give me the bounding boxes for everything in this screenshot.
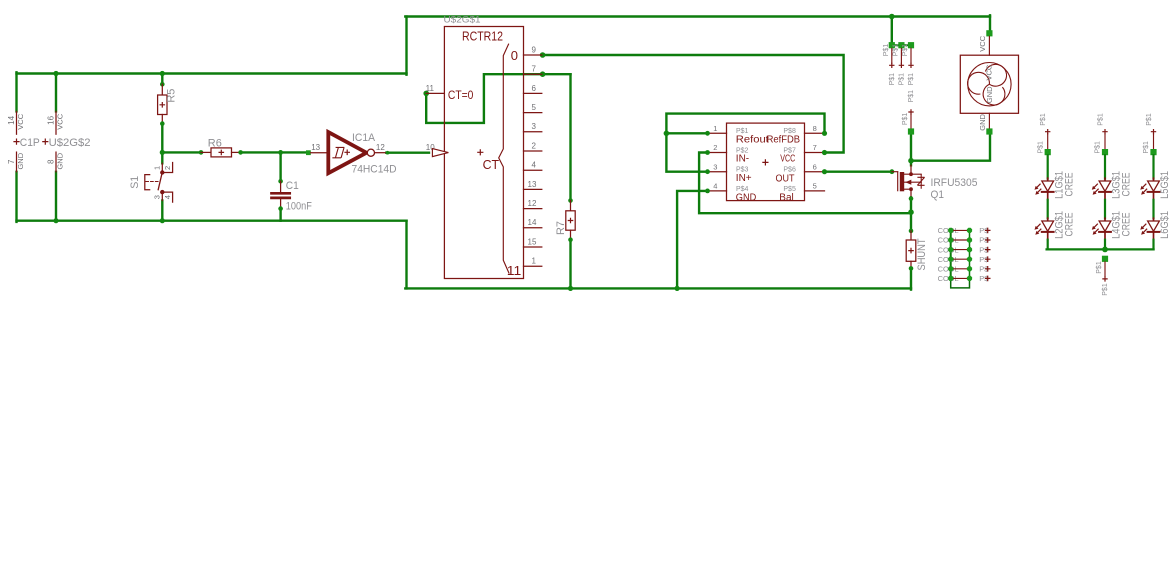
svg-text:8: 8 <box>813 124 817 133</box>
svg-text:3: 3 <box>713 162 717 171</box>
wire COOL left column <box>950 230 952 278</box>
power symbol IC1P origin cross and name <box>13 139 19 145</box>
svg-text:15: 15 <box>528 237 537 246</box>
svg-text:P$1: P$1 <box>1040 113 1047 126</box>
svg-text:RCTR12: RCTR12 <box>462 30 503 44</box>
wire U1 RefFDB pin 8 feedback loop to Refout pin 1 and IN+ pin 3 <box>666 114 824 172</box>
counter pin 1 <box>524 265 542 267</box>
counter pin 2 <box>524 150 542 152</box>
junction top bus at U$2G$2 <box>53 71 58 76</box>
svg-text:2: 2 <box>163 166 172 170</box>
svg-text:P$1: P$1 <box>1102 283 1109 296</box>
LED L1G$1 CREE <box>1047 178 1049 200</box>
wire top-left VCC bus <box>17 72 407 74</box>
svg-text:6: 6 <box>813 162 817 171</box>
power symbol U$2G$2 origin cross and name <box>42 139 48 145</box>
wire joining header pads PS1 <box>892 44 911 46</box>
wire R5 to S1 and R6 node <box>161 124 163 164</box>
fan GND pin <box>988 113 990 128</box>
LED L6G$1 CREE <box>1153 218 1155 240</box>
LED L1G$1 emission arrows <box>1037 184 1041 188</box>
junction R7 at bottom bus <box>568 286 573 291</box>
schmitt trigger hysteresis mark of IC1A <box>332 147 344 157</box>
wire GND bus jog down <box>405 221 407 289</box>
U1 pin 5 Bal <box>805 190 825 192</box>
transistor Q1 IRFU5305 P-MOSFET <box>890 169 895 174</box>
svg-text:L6G$1: L6G$1 <box>1159 211 1169 239</box>
wire C1 top drop <box>279 152 281 181</box>
svg-text:P$1: P$1 <box>908 90 915 103</box>
svg-text:12: 12 <box>528 199 537 208</box>
wire counter pin 9 to U1 VCC <box>543 55 844 153</box>
svg-text:4: 4 <box>713 182 717 191</box>
svg-text:6: 6 <box>532 84 537 93</box>
svg-text:P$6: P$6 <box>783 167 796 174</box>
junction pin 11 reset node <box>423 91 429 97</box>
junction counter pin 7 <box>540 71 546 77</box>
junction R5/S1/R6 node <box>160 150 165 155</box>
svg-text:P$1: P$1 <box>1095 141 1102 154</box>
svg-text:11: 11 <box>507 263 522 278</box>
wire counter pin 11 reset loop <box>426 74 570 123</box>
wire LED column 2 <box>1104 155 1106 178</box>
wire S1 bottom to GND bus <box>161 201 163 221</box>
svg-text:P$1: P$1 <box>902 44 909 57</box>
counter CT label <box>477 149 483 155</box>
resistor R5 <box>160 82 165 87</box>
svg-text:P$1: P$1 <box>889 73 896 86</box>
svg-text:2: 2 <box>713 143 717 152</box>
junction main top bus at header drop <box>889 14 895 20</box>
svg-text:P$1: P$1 <box>902 113 909 126</box>
wire U1 OUT pin 6 to Q1 gate <box>825 170 892 172</box>
svg-text:P$5: P$5 <box>783 186 796 193</box>
svg-text:12: 12 <box>376 143 385 152</box>
svg-text:IN-: IN- <box>736 154 749 165</box>
svg-text:100nF: 100nF <box>286 201 312 213</box>
svg-text:13: 13 <box>311 143 320 152</box>
svg-text:VCC: VCC <box>16 113 25 129</box>
svg-text:P$1: P$1 <box>1096 261 1103 274</box>
junction bottom bus at U$2G$2 <box>53 218 58 223</box>
svg-text:C1: C1 <box>286 180 299 192</box>
svg-text:CT=0: CT=0 <box>448 90 474 102</box>
svg-text:R7: R7 <box>555 221 567 235</box>
svg-text:GND: GND <box>985 86 994 103</box>
wire top bus to fan VCC <box>989 15 991 30</box>
svg-text:P$1: P$1 <box>883 44 890 57</box>
U1 pin 7 VCC <box>805 152 825 154</box>
counter pin 12 <box>524 208 542 210</box>
svg-text:P$1: P$1 <box>908 73 915 86</box>
svg-text:GND: GND <box>56 152 65 169</box>
op-amp IC1A 74HC14D inverter <box>306 150 311 155</box>
junction LED bottom <box>1102 247 1108 253</box>
svg-text:P$1: P$1 <box>1037 141 1044 154</box>
counter pin 4 <box>524 169 542 171</box>
power symbol IC1P pin 7 GND <box>16 152 18 172</box>
svg-text:VCC: VCC <box>984 64 993 80</box>
svg-text:4: 4 <box>532 161 537 170</box>
wire U$2G$2 VCC drop <box>55 72 57 111</box>
svg-text:7: 7 <box>813 143 817 152</box>
pin header pad P$1 #2 <box>898 42 904 48</box>
svg-text:P$1: P$1 <box>899 73 906 86</box>
svg-text:GND: GND <box>978 113 987 130</box>
svg-text:CREE: CREE <box>1121 173 1133 197</box>
junction Q1 source node <box>908 158 914 164</box>
resistor R7 <box>568 198 573 203</box>
svg-text:2: 2 <box>532 141 537 150</box>
svg-text:IN+: IN+ <box>736 173 752 184</box>
wire feedback node to pin 1 <box>666 132 707 134</box>
LED L4G$1 CREE <box>1104 218 1106 240</box>
power symbol U$2G$2 pin 8 GND <box>55 152 57 172</box>
counter pin 3 <box>524 131 542 133</box>
svg-text:CT: CT <box>483 158 500 172</box>
junction U1 GND at bottom bus <box>675 286 680 291</box>
svg-text:1: 1 <box>532 257 537 266</box>
svg-text:L5G$1: L5G$1 <box>1159 171 1169 199</box>
wire U1 IN- pin 2 to Q1 drain sense <box>699 153 911 214</box>
pin header pad P$1 #4 (fan gnd tie) <box>908 109 913 114</box>
svg-text:IC1A: IC1A <box>352 132 376 144</box>
wire R7 bottom to GND bus <box>569 240 571 289</box>
LED string column 3 top pin P$1 <box>1151 129 1156 134</box>
wire R5 top drop <box>161 72 163 84</box>
U1 pin 4 GND <box>708 190 727 192</box>
LED L2G$1 CREE <box>1047 218 1049 240</box>
counter pin 6 <box>524 92 542 94</box>
svg-text:U$2G$1: U$2G$1 <box>444 15 481 26</box>
svg-text:IRFU5305: IRFU5305 <box>931 177 978 189</box>
U1 pin 2 IN- <box>708 152 727 154</box>
wire COOL right column <box>969 230 971 278</box>
svg-text:1: 1 <box>713 124 717 133</box>
svg-text:Bal: Bal <box>779 192 793 203</box>
svg-text:P$1: P$1 <box>736 128 749 135</box>
svg-text:CREE: CREE <box>1063 173 1075 197</box>
junction R6/C1 node <box>278 150 283 155</box>
fan M1 symbol <box>960 55 1018 113</box>
svg-text:RefFDB: RefFDB <box>767 135 801 146</box>
svg-text:P$1: P$1 <box>893 44 900 57</box>
counter U$2G$1 RCTR12 box <box>444 27 523 279</box>
svg-text:P$1: P$1 <box>1146 113 1153 126</box>
svg-text:3: 3 <box>532 122 537 131</box>
U1 pin 1 Refout <box>708 132 727 134</box>
svg-text:P$1: P$1 <box>1143 141 1150 154</box>
svg-text:14: 14 <box>528 218 537 227</box>
svg-text:SHUNT: SHUNT <box>916 238 928 270</box>
switch S1 <box>161 163 163 172</box>
svg-text:OUT: OUT <box>776 173 795 184</box>
svg-text:14: 14 <box>7 115 16 124</box>
wire COOL bottom tie <box>951 278 970 288</box>
junction feedback at pin 1 <box>664 131 670 137</box>
counter pin 13 <box>524 188 542 190</box>
wire R6 right to IC1A input <box>241 151 307 153</box>
svg-text:P$8: P$8 <box>783 128 796 135</box>
LED string column 1 top pin P$1 <box>1045 129 1050 134</box>
wire LED bottom join <box>1047 248 1154 250</box>
wire IC1A output to counter clock pin 10 <box>386 151 429 153</box>
power symbol IC1P pin 14 VCC <box>16 111 18 134</box>
svg-text:3: 3 <box>153 195 162 199</box>
pin header pad P$1 #3 <box>908 42 914 48</box>
junction bottom bus at S1 <box>160 218 165 223</box>
Q1 body diode <box>917 174 924 189</box>
wire LED column 3 <box>1152 155 1154 178</box>
svg-text:7: 7 <box>7 159 16 164</box>
svg-text:VCC: VCC <box>56 113 65 129</box>
svg-text:GND: GND <box>736 192 757 203</box>
svg-text:5: 5 <box>532 103 537 112</box>
svg-text:CREE: CREE <box>1121 213 1133 237</box>
svg-text:P$4: P$4 <box>736 186 749 193</box>
LED L4G$1 emission arrows <box>1094 224 1098 228</box>
svg-text:R6: R6 <box>208 137 222 149</box>
svg-text:R5: R5 <box>166 89 178 103</box>
LED bottom pin P$1 <box>1102 256 1108 262</box>
svg-text:P$3: P$3 <box>736 167 749 174</box>
svg-text:5: 5 <box>813 182 817 191</box>
power symbol U$2G$2 pin 16 VCC <box>55 111 57 134</box>
svg-text:7: 7 <box>532 65 537 74</box>
svg-text:U$2G$2: U$2G$2 <box>49 137 91 149</box>
svg-text:8: 8 <box>46 159 55 164</box>
junction Q1 drain / IN- sense node <box>908 209 914 215</box>
counter pin 11 CT=0 input <box>426 92 444 94</box>
wire vertical joining top-left bus to main top bus <box>405 17 407 75</box>
svg-text:9: 9 <box>532 45 537 54</box>
wire Q1 drain to SHUNT <box>910 197 912 231</box>
svg-text:1: 1 <box>153 166 162 170</box>
output bubble of IC1A <box>367 149 374 156</box>
LED L6G$1 emission arrows <box>1143 224 1147 228</box>
counter pin 15 <box>524 246 542 248</box>
U1 pin 6 OUT <box>805 171 825 173</box>
wire U1 GND pin 4 to bottom bus <box>677 191 707 289</box>
LED L3G$1 emission arrows <box>1094 184 1098 188</box>
svg-text:11: 11 <box>426 84 435 93</box>
svg-text:Refout: Refout <box>736 135 769 146</box>
resistor R6 <box>199 150 204 155</box>
svg-text:16: 16 <box>46 115 55 124</box>
LED L2G$1 emission arrows <box>1037 224 1041 228</box>
svg-text:P$1: P$1 <box>1098 113 1105 126</box>
svg-text:C1P: C1P <box>20 137 40 149</box>
svg-text:P$7: P$7 <box>783 147 796 154</box>
svg-text:P$2: P$2 <box>736 147 749 154</box>
wire node to R6 left <box>162 151 201 153</box>
wire fan GND to Q1 source node <box>911 135 990 161</box>
wire U$2G$2 GND drop <box>55 172 57 221</box>
capacitor C1 100nF <box>278 179 283 184</box>
svg-text:VCC: VCC <box>780 154 795 165</box>
counter pin 5 <box>524 112 542 114</box>
svg-text:Q1: Q1 <box>931 189 945 201</box>
U1 pin 8 RefFDB <box>805 132 825 134</box>
svg-text:GND: GND <box>16 152 25 169</box>
svg-text:CREE: CREE <box>1063 213 1075 237</box>
wire main top VCC bus <box>405 15 990 17</box>
LED L5G$1 CREE <box>1153 178 1155 200</box>
wire SHUNT bottom to GND bus <box>910 268 912 289</box>
fan blades <box>985 64 1006 86</box>
fan VCC pin <box>986 30 992 36</box>
wire C1 bottom to GND bus <box>279 209 281 221</box>
counter pin 14 <box>524 227 542 229</box>
svg-text:S1: S1 <box>129 176 141 189</box>
junction top bus at R5 <box>160 71 165 76</box>
svg-text:74HC14D: 74HC14D <box>352 164 397 176</box>
U1 pin 3 IN+ <box>708 171 727 173</box>
pin header pad P$1 #1 <box>889 42 895 48</box>
wire main bottom GND bus <box>405 287 911 289</box>
wire bottom-left GND bus <box>17 219 407 221</box>
LED string column 2 top pin P$1 <box>1102 129 1107 134</box>
svg-text:4: 4 <box>163 195 172 199</box>
svg-text:VCC: VCC <box>978 35 987 51</box>
resistor SHUNT <box>909 229 914 234</box>
counter pin 7 <box>524 73 542 75</box>
junction counter pin 9 <box>540 52 546 58</box>
LED L5G$1 emission arrows <box>1143 184 1147 188</box>
wire LED column 1 <box>1047 155 1049 178</box>
wire IC1P VCC drop <box>15 72 17 111</box>
LED L3G$1 CREE <box>1104 178 1106 200</box>
wire P$1 pad to Q1 source <box>910 135 912 166</box>
svg-text:0: 0 <box>511 48 518 63</box>
counter range brace 0..11 <box>499 44 510 274</box>
wire top bus drop to header pads <box>891 17 893 46</box>
op-amp U1 reference/driver block <box>727 123 805 201</box>
wire counter pin 7 to R7 column <box>569 74 571 200</box>
wire IC1P GND drop <box>15 172 17 222</box>
svg-text:13: 13 <box>528 180 537 189</box>
counter pin 9 <box>524 54 542 56</box>
